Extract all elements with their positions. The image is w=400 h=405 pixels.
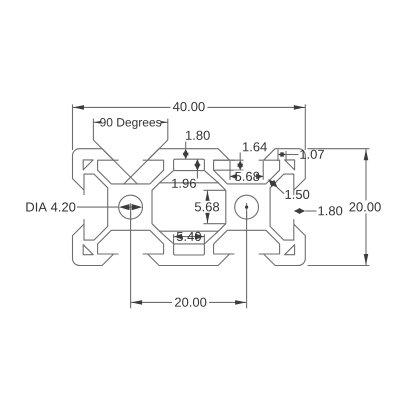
dim 90 Degrees arrows xyxy=(94,120,105,125)
dim 1.96 leader xyxy=(196,159,198,178)
bottom center rectangular cavity xyxy=(174,244,205,255)
dim 1.80 top arrows xyxy=(183,149,189,156)
dim 20.00 bottom ext lines xyxy=(130,212,132,308)
dim 5.68 oct ext lines xyxy=(204,189,226,191)
connector line bottom-left xyxy=(160,231,174,244)
dim 90 Degrees text xyxy=(101,116,161,129)
corner triangle top-right xyxy=(285,160,295,170)
dim 5.40 ext lines xyxy=(173,234,175,244)
dim 40.00 text xyxy=(170,100,207,113)
corner triangle bottom-left xyxy=(83,245,93,255)
dim 1.07 text xyxy=(300,150,324,159)
dim 5.40 line xyxy=(174,236,205,238)
dim 1.64 ext lines xyxy=(214,159,244,161)
dim 1.80 right leader xyxy=(305,210,316,212)
dim 1.50 leader xyxy=(277,187,284,194)
center dot right hole xyxy=(245,206,248,209)
dim 5.68 oct arrows xyxy=(205,191,210,202)
dim 20.00 bottom arrows xyxy=(131,300,142,305)
connector line bottom-right xyxy=(204,231,218,244)
connector line top-right xyxy=(204,171,218,183)
dim 1.64 leader xyxy=(239,153,241,161)
dim 90 Degrees line xyxy=(93,121,167,123)
dim 1.50 text xyxy=(285,190,309,199)
corner triangle bottom-right xyxy=(285,245,295,255)
dim 20.00 right ext lines xyxy=(308,148,370,150)
connector line top-left (rect to octagon) xyxy=(160,171,174,183)
dim 40.00 ext lines xyxy=(72,104,74,150)
dim 1.07 ext lines xyxy=(277,150,279,162)
dim 90 Degrees ext lines xyxy=(92,119,94,140)
V construction line left xyxy=(93,140,137,185)
dim 20.00 bottom line xyxy=(131,301,247,303)
dim 20.00 right text xyxy=(347,200,384,213)
dim 1.96 arrows xyxy=(194,159,200,166)
dim 1.80 right text xyxy=(318,206,342,215)
top center rectangular cavity xyxy=(174,159,205,170)
dim 5.68 oct text xyxy=(194,201,221,213)
dim 1.64 text xyxy=(243,142,267,151)
dim 5.68 oct line xyxy=(207,190,209,223)
dim 40.00 line xyxy=(73,106,306,108)
dim 1.64 arrows xyxy=(237,160,243,167)
dim 1.80 top text xyxy=(186,131,210,140)
dim 5.68 slot arrows xyxy=(230,174,237,180)
dim 20.00 right arrows xyxy=(364,149,369,160)
dim DIA 4.20 leader xyxy=(77,206,119,208)
dim 1.80 right arrows xyxy=(294,208,301,214)
profile outline xyxy=(73,149,306,266)
dim DIA 4.20 text xyxy=(26,202,75,211)
dim 5.68 slot ext lines xyxy=(229,161,231,180)
hole left DIA 4.20 xyxy=(119,195,143,219)
dim 1.07 arrows xyxy=(278,152,284,157)
dim DIA 4.20 arrows in hole xyxy=(125,206,137,208)
dim 5.68 slot text xyxy=(234,170,261,182)
dim 5.68 slot line xyxy=(230,175,263,177)
centerline left hole xyxy=(130,203,132,221)
dim 1.96 text xyxy=(172,179,196,188)
central octagon cavity xyxy=(152,183,226,231)
dim 1.07 leader xyxy=(286,154,299,156)
dim 20.00 bottom text xyxy=(172,296,209,309)
dim 5.40 text xyxy=(177,232,201,241)
V construction line right xyxy=(123,140,168,185)
dim 40.00 arrows xyxy=(73,105,84,110)
hole right xyxy=(235,195,259,219)
centerline right hole xyxy=(246,203,248,221)
dim 1.50 arrows xyxy=(268,179,276,187)
dim 5.40 arrows xyxy=(174,234,182,240)
corner triangle top-left xyxy=(83,160,93,170)
dim 20.00 right line xyxy=(365,149,367,266)
dim 1.80 top leader xyxy=(185,142,187,149)
